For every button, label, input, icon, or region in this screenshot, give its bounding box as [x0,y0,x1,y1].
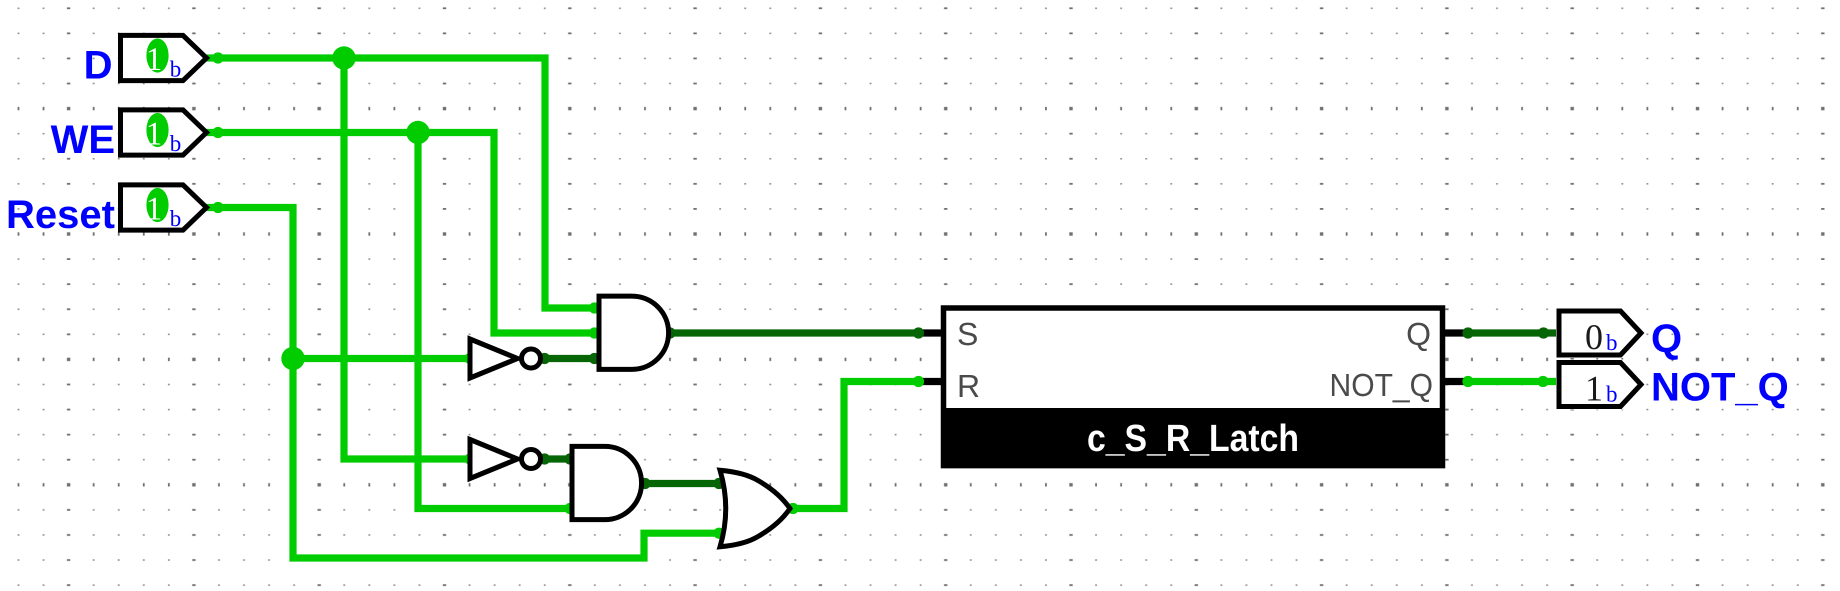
svg-text:1: 1 [146,117,163,153]
svg-text:WE: WE [51,118,115,162]
svg-text:D: D [84,44,113,88]
svg-text:Q: Q [1651,317,1682,361]
svg-text:b: b [170,57,182,82]
svg-text:b: b [1606,382,1618,407]
svg-text:c_S_R_Latch: c_S_R_Latch [1087,418,1299,460]
svg-text:Q: Q [1406,316,1431,352]
svg-text:S: S [957,316,978,352]
svg-text:1: 1 [1585,369,1603,409]
svg-text:b: b [170,206,182,231]
svg-text:b: b [1606,330,1618,355]
svg-text:1: 1 [146,192,163,228]
svg-text:b: b [170,131,182,156]
svg-text:R: R [957,368,980,404]
svg-text:1: 1 [146,42,163,78]
svg-text:0: 0 [1585,317,1603,357]
svg-text:Reset: Reset [6,193,115,237]
svg-text:NOT_Q: NOT_Q [1651,366,1789,410]
svg-text:NOT_Q: NOT_Q [1330,367,1434,403]
